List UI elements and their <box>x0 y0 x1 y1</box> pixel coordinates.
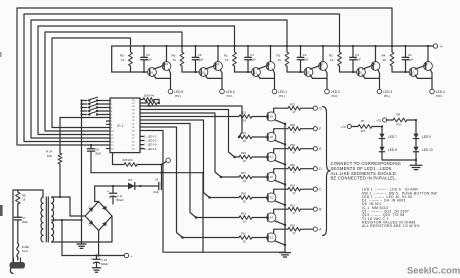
pin number left 8 of IC1 <box>111 124 113 126</box>
switch SW2 push-button <box>80 101 110 106</box>
wire Q7 collector to Q8 base <box>415 65 426 69</box>
transistor Q11 2N2907 <box>199 68 208 77</box>
svg-text:47: 47 <box>293 151 296 155</box>
svg-text:LED 9: LED 9 <box>422 135 431 139</box>
svg-text:470: 470 <box>361 129 366 133</box>
wire supply row <box>91 172 204 174</box>
pin number left 4 of IC1 <box>111 111 113 113</box>
wire R5 to Q9 base <box>112 66 148 72</box>
svg-text:LED 6: LED 6 <box>226 90 235 94</box>
svg-text:R25 10K: R25 10K <box>123 158 133 162</box>
resistor R7 470 <box>351 119 372 133</box>
switch SW1 push-button <box>80 97 110 102</box>
wire Q2 emitter to V+ bus <box>269 45 271 62</box>
wire Q 13 collector <box>274 229 288 233</box>
svg-text:R 24: R 24 <box>46 150 52 154</box>
svg-text:Q7: Q7 <box>411 71 415 75</box>
resistor R21 1K (base) <box>239 131 252 143</box>
note text connect segments <box>331 161 402 181</box>
capacitor C9 .01uF <box>153 178 162 194</box>
svg-text:R20: R20 <box>290 123 295 127</box>
svg-text:47: 47 <box>293 131 296 135</box>
diode D1 <box>89 205 94 212</box>
svg-text:PIN 1: PIN 1 <box>332 95 339 98</box>
svg-text:C7: C7 <box>22 216 26 220</box>
ground LED section <box>410 165 422 169</box>
ground driver rail <box>280 253 291 257</box>
wire Q 17 collector <box>274 149 288 153</box>
svg-text:R19: R19 <box>241 151 246 155</box>
node LED 4 anode terminal <box>430 89 435 94</box>
wire IC1 pin to Q17 base (stair) <box>140 110 239 159</box>
svg-text:R6: R6 <box>172 54 176 58</box>
wire R27 junction <box>157 102 159 104</box>
resistor R3 1K (digit 5 input, in bus drop) <box>329 45 341 66</box>
transistor Q2 2N2907 <box>266 62 275 71</box>
svg-text:Q3: Q3 <box>306 71 310 75</box>
svg-text:R5: R5 <box>120 54 124 58</box>
svg-text:1K: 1K <box>243 139 246 143</box>
transistor Q6 2N2907 <box>371 62 380 71</box>
wire line lead left <box>12 190 14 262</box>
pin stub left IC1 unconnected <box>107 121 111 149</box>
svg-text:R11: R11 <box>241 232 246 236</box>
wire negative rail <box>62 255 124 257</box>
capacitor C6 .01uF <box>192 45 203 73</box>
wire secondary top to bridge <box>52 197 86 216</box>
svg-text:E: E <box>319 147 321 151</box>
svg-text:D5: D5 <box>128 178 132 182</box>
wire Q5/Q6 to LED terminal <box>363 70 380 90</box>
transformer T1 primary winding <box>41 197 43 242</box>
svg-text:01µF: 01µF <box>197 57 203 61</box>
capacitor C8 .05uF <box>87 144 101 173</box>
svg-text:C9: C9 <box>155 178 159 182</box>
wire Q3 collector to Q4 base <box>310 65 321 69</box>
transistor Q3 2N2907 <box>304 68 313 77</box>
pin number left 3 of IC1 <box>111 108 113 110</box>
svg-text:47: 47 <box>293 191 296 195</box>
svg-text:1K: 1K <box>243 179 246 183</box>
pin number right 21 of IC1 <box>132 124 135 126</box>
svg-text:Q5: Q5 <box>358 71 362 75</box>
resistor R22 47 (collector) <box>288 102 301 114</box>
pin number left 14 of IC1 <box>111 145 114 147</box>
svg-text:+TO: +TO <box>341 125 346 129</box>
svg-text:Q11: Q11 <box>201 71 206 75</box>
transistor Q 17 TIS98 <box>267 152 276 161</box>
wire Q 18 collector <box>274 129 288 133</box>
wire R17 to Q 16 base <box>252 176 268 178</box>
pin number right 17 of IC1 <box>132 138 135 140</box>
LED 7 <box>379 127 397 139</box>
node segment A output terminal <box>313 227 322 231</box>
wire Q9 collector to Q10 base <box>154 65 165 69</box>
svg-text:1K: 1K <box>243 240 246 244</box>
node segment B output terminal <box>313 207 321 211</box>
node segment D output terminal <box>313 167 322 171</box>
wire R15 to Q 15 base <box>252 197 268 199</box>
wire Q 16 emitter to rail <box>275 180 286 185</box>
svg-text:LED 10: LED 10 <box>422 148 433 152</box>
label LED 3 <box>383 90 392 98</box>
wire Q 19 collector <box>274 108 288 112</box>
resistor R14 47 (collector) <box>288 183 301 195</box>
svg-text:5→LED 1-2: 5→LED 1-2 <box>144 136 157 139</box>
wire Q12 emitter to V+ bus <box>217 45 219 62</box>
wire LED7 to LED8 <box>381 139 383 147</box>
svg-text:R2: R2 <box>277 54 281 58</box>
pin number left 6 of IC1 <box>111 118 113 120</box>
wire rectifier output row <box>95 185 128 187</box>
pin number right 14 of IC1 <box>132 149 135 151</box>
wire R11 to Q 13 base <box>252 237 268 239</box>
resistor R8 470 <box>387 113 407 127</box>
transformer T1 core <box>46 197 48 242</box>
svg-text:1K: 1K <box>243 220 246 224</box>
resistor R19 1K (base) <box>239 151 252 163</box>
LED 10 <box>413 147 432 152</box>
switch SW3 push-button <box>80 104 110 109</box>
wire Q7/Q8 to LED terminal <box>415 70 432 90</box>
label SeekIC.com watermark <box>407 264 460 275</box>
wire R4 to Q7 base <box>392 66 409 72</box>
wire R2 to Q3 base <box>287 66 304 72</box>
svg-text:01µF: 01µF <box>250 57 256 61</box>
svg-text:D2: D2 <box>89 223 93 227</box>
node LED 2 anode terminal <box>325 89 330 94</box>
pin number right 22 of IC1 <box>132 120 135 122</box>
svg-text:LED 4: LED 4 <box>436 90 445 94</box>
node LED 5 anode terminal <box>168 89 173 94</box>
svg-text:1K: 1K <box>278 58 282 62</box>
svg-text:PIN 1: PIN 1 <box>227 95 234 98</box>
svg-text:Q9: Q9 <box>149 71 153 75</box>
switch SW5 push-button <box>80 111 110 116</box>
svg-text:LED 8: LED 8 <box>388 148 397 152</box>
wire R10 to terminal <box>301 228 314 230</box>
pin stub right IC1 unconnected <box>140 148 144 150</box>
svg-text:R21: R21 <box>241 131 246 135</box>
transistor Q 18 TIS98 <box>267 132 276 141</box>
svg-text:1K: 1K <box>173 58 177 62</box>
svg-text:01µF: 01µF <box>302 57 308 61</box>
svg-text:47: 47 <box>293 171 296 175</box>
svg-text:D1: D1 <box>89 205 93 209</box>
pin number left 5 of IC1 <box>111 115 113 117</box>
resistor R10 47 (collector) <box>288 223 301 235</box>
wire secondary center tap <box>52 219 83 221</box>
wire bus left drop to Q9 base wire <box>111 46 113 72</box>
wire IC1 to Q19 base (segment g) <box>140 116 239 118</box>
svg-text:R7: R7 <box>361 119 365 123</box>
transistor Q 14 TIS98 <box>267 213 276 222</box>
svg-text:C2: C2 <box>303 53 307 57</box>
node segment E output terminal <box>313 147 321 151</box>
wire R22 to terminal <box>301 107 314 109</box>
wire driver emitter rail <box>284 124 286 252</box>
pin number right 16 of IC1 <box>132 142 135 144</box>
wire R19 to Q 17 base <box>252 156 268 158</box>
svg-text:1K: 1K <box>330 58 334 62</box>
label LED 4 <box>436 90 445 98</box>
wire Q 13 emitter to rail <box>275 241 286 246</box>
wire digit-enable bus 6 (IC1 pin to display driver stage) <box>52 38 131 128</box>
pin number right 20 of IC1 <box>132 127 135 129</box>
wire Q11 collector to Q12 base <box>205 65 216 69</box>
svg-text:PIN 1: PIN 1 <box>175 95 182 98</box>
pin number left 1 of IC1 <box>111 101 113 103</box>
wire digit-enable bus 5 (IC1 pin to display driver stage) <box>45 32 182 131</box>
resistor R11 1K (base) <box>239 232 252 244</box>
wire Q5 collector to Q6 base <box>363 65 374 69</box>
transistor Q9 2N2907 <box>148 68 157 77</box>
svg-text:LED 5: LED 5 <box>174 90 183 94</box>
wire R6 to Q11 base <box>182 66 199 72</box>
pin number right 19 of IC1 <box>132 131 135 133</box>
wire IC1 pin to Q18 base (stair) <box>140 106 242 138</box>
wire digit-enable bus 4 (IC1 pin to display driver stage) <box>38 26 235 135</box>
op-amp IC U1 MM5313 clock chip body <box>110 98 140 153</box>
svg-text:C1: C1 <box>250 53 254 57</box>
pin number right 23 of IC1 <box>132 117 135 119</box>
node LED 3 anode terminal <box>377 89 382 94</box>
capacitor C5 .01uF <box>141 45 152 73</box>
svg-text:15: 15 <box>22 198 25 202</box>
scan artifact left edge <box>0 52 3 216</box>
wire switch common rail <box>81 101 83 221</box>
svg-text:47: 47 <box>293 231 296 235</box>
svg-text:R16: R16 <box>290 163 295 167</box>
svg-text:R3: R3 <box>329 54 333 58</box>
svg-text:Q 16: Q 16 <box>267 176 273 179</box>
svg-text:01µF: 01µF <box>355 57 361 61</box>
svg-text:C3: C3 <box>355 53 359 57</box>
svg-text:10K: 10K <box>47 154 52 158</box>
wire Q 18 emitter to rail <box>275 140 286 145</box>
svg-text:Q 14: Q 14 <box>267 217 273 220</box>
wire rectifier row to bridge <box>95 186 99 202</box>
transistor Q 19 TIS98 <box>267 112 276 121</box>
svg-text:1K: 1K <box>243 159 246 163</box>
wire IC1 pin 28 to R26 <box>140 99 143 101</box>
wire Q11/Q12 to LED terminal <box>205 70 222 90</box>
svg-text:.01µF: .01µF <box>153 191 160 194</box>
wire C9 to supply row <box>160 173 162 186</box>
svg-text:PIN 1: PIN 1 <box>384 95 391 98</box>
svg-text:R14: R14 <box>290 183 295 187</box>
wire IC1 pin to Q16 base (stair) <box>140 113 239 178</box>
wire IC1 pin 6 to R24 <box>60 118 110 154</box>
pin number right 28 of IC1 <box>132 100 135 102</box>
wire bridge minus to rail <box>98 231 100 257</box>
resistor R2 1K (digit 4 input, in bus drop) <box>277 45 289 66</box>
svg-text:R4: R4 <box>382 54 386 58</box>
node V+ terminal <box>431 44 444 49</box>
resistor R25 10K <box>123 158 138 166</box>
svg-text:D4: D4 <box>104 205 108 209</box>
wire R18 to terminal <box>301 148 314 150</box>
svg-text:1K: 1K <box>243 119 246 123</box>
svg-text:1K: 1K <box>121 58 125 62</box>
label LED 5 <box>174 90 183 98</box>
resistor R6 1K (digit 2 input, in bus drop) <box>172 45 184 66</box>
svg-text:Q 18: Q 18 <box>267 136 273 139</box>
diode D3 <box>102 222 108 227</box>
wire R23 to Q 19 base <box>252 116 268 118</box>
transformer T1 secondary winding <box>52 197 54 242</box>
pin number right 24 of IC1 <box>132 113 135 115</box>
svg-text:1K: 1K <box>383 58 387 62</box>
bridge rectifier D1-D4 diamond <box>85 202 112 231</box>
resistor R13 1K (base) <box>239 212 252 224</box>
wire LED9 to LED10 <box>415 139 417 147</box>
svg-text:C6: C6 <box>198 53 202 57</box>
wire Q1 collector to Q2 base <box>258 65 269 69</box>
svg-text:LED 2: LED 2 <box>331 90 340 94</box>
node segment G output terminal <box>313 106 322 110</box>
label LED 1 <box>278 90 287 98</box>
node negative output terminal <box>124 253 132 258</box>
svg-text:+: + <box>107 189 109 193</box>
svg-text:R8: R8 <box>397 113 401 117</box>
svg-text:6→LED 2-3: 6→LED 2-3 <box>144 140 157 143</box>
transistor Q1 2N2907 <box>252 68 261 77</box>
wire R16 to terminal <box>301 168 314 170</box>
svg-text:ALL RESISTORS ARE 1/2 W 5%: ALL RESISTORS ARE 1/2 W 5% <box>362 224 420 228</box>
svg-text:Q 19: Q 19 <box>267 116 273 119</box>
capacitor C4 .01uF <box>402 45 413 73</box>
svg-text:R18: R18 <box>290 143 295 147</box>
svg-text:R17: R17 <box>241 171 246 175</box>
svg-text:1K: 1K <box>225 58 229 62</box>
wire Q6 emitter to V+ bus <box>374 45 376 62</box>
wire digit-enable bus 1 (IC1 pin to display driver stage) <box>17 8 392 145</box>
node supply terminal <box>162 158 171 165</box>
svg-text:50/60 Hz: 50/60 Hz <box>144 94 155 97</box>
LED 9 <box>413 120 431 139</box>
wire IC1 pin to Q15 base (stair) <box>140 120 239 199</box>
svg-text:F: F <box>319 127 321 131</box>
resistor R16 47 (collector) <box>288 163 301 175</box>
transistor Q12 2N2907 <box>214 62 223 71</box>
pin number left 2 of IC1 <box>111 104 113 106</box>
bracket segment outputs group <box>323 107 331 236</box>
pin number right 18 of IC1 <box>132 135 135 137</box>
transistor Q7 2N2907 <box>409 68 418 77</box>
node LED 6 anode terminal <box>220 89 225 94</box>
switch SW4 push-button <box>80 108 110 113</box>
wire Q9/Q10 to LED terminal <box>154 70 171 90</box>
svg-text:500µF: 500µF <box>116 199 124 202</box>
wire supply node down <box>160 165 162 174</box>
pin number left 15 of IC1 <box>111 149 114 151</box>
capacitor C2 .01uF <box>297 45 308 73</box>
ground C10 <box>93 268 101 272</box>
wire D5 to C9 <box>141 185 159 187</box>
svg-text:500µF: 500µF <box>101 263 109 266</box>
wire Q 14 emitter to rail <box>275 221 286 226</box>
svg-text:LED 3: LED 3 <box>383 90 392 94</box>
svg-text:FUSE: FUSE <box>22 245 29 249</box>
svg-text:R12: R12 <box>290 203 295 207</box>
capacitor C3 .01uF <box>350 45 361 73</box>
pin number right 26 of IC1 <box>132 106 135 108</box>
svg-text:LED 1: LED 1 <box>278 90 287 94</box>
wire secondary bottom to bridge <box>52 216 112 242</box>
svg-text:C5: C5 <box>146 53 150 57</box>
svg-text:R10: R10 <box>290 223 295 227</box>
wire digit-enable bus 3 (IC1 pin to display driver stage) <box>31 20 287 138</box>
wire Q 17 emitter to rail <box>275 160 286 165</box>
svg-text:R9: R9 <box>22 194 26 198</box>
resistor R18 47 (collector) <box>288 143 301 155</box>
wire Q 14 collector <box>274 209 288 213</box>
pin number left 12 of IC1 <box>111 138 114 140</box>
wire supply row to rail <box>202 173 204 253</box>
wire Q 15 emitter to rail <box>275 201 286 206</box>
node segment F output terminal <box>313 127 321 131</box>
capacitor C7 .05uF <box>14 216 28 243</box>
label LED 2 <box>331 90 340 98</box>
svg-text:SeekIC.com: SeekIC.com <box>407 264 460 275</box>
wire R25 to supply node <box>137 163 163 165</box>
label LED 6 <box>226 90 235 98</box>
resistor R4 1K (digit 6 input, in bus drop) <box>382 45 394 66</box>
svg-text:+TO: +TO <box>376 119 381 123</box>
wire IC1 pin to Q13 base (stair) <box>140 127 239 239</box>
resistor R9 15 <box>16 190 26 217</box>
wire V+ supply bus <box>112 45 431 47</box>
wire LED10 to ground <box>415 152 417 165</box>
svg-text:C4: C4 <box>408 53 412 57</box>
wire Q 19 emitter to rail <box>275 120 286 125</box>
pin number left 11 of IC1 <box>111 135 114 137</box>
svg-text:470: 470 <box>396 122 401 126</box>
svg-text:+: + <box>131 254 133 258</box>
svg-text:LED 7: LED 7 <box>388 135 397 139</box>
pin number right 15 of IC1 <box>132 145 135 147</box>
ground center tap <box>77 220 86 248</box>
svg-text:PIN 1: PIN 1 <box>437 95 444 98</box>
pin number left 7 of IC1 <box>111 121 113 123</box>
capacitor C10 500uF electrolytic <box>90 254 108 267</box>
AC plug <box>10 258 26 274</box>
wire primary top rail <box>13 190 43 197</box>
svg-text:Q 17: Q 17 <box>267 156 273 159</box>
node +V terminal to R8 <box>376 118 387 123</box>
LED 8 <box>379 147 397 152</box>
wire R8 to LED9 <box>407 119 417 121</box>
transistor Q 15 TIS98 <box>267 193 276 202</box>
fuse FUSE 1/2A <box>17 244 29 261</box>
resistor R1 1K (digit 3 input, in bus drop) <box>224 45 236 66</box>
svg-text:R15: R15 <box>241 192 246 196</box>
transistor Q10 2N2907 <box>162 62 171 71</box>
transistor Q4 2N2907 <box>319 62 328 71</box>
wire R12 to terminal <box>301 208 314 210</box>
resistor R17 1K (base) <box>239 171 252 183</box>
svg-text:.05µF: .05µF <box>95 152 102 155</box>
wire IC1 pin 27 to R27 <box>140 102 146 104</box>
svg-text:IC 1: IC 1 <box>118 124 124 128</box>
wire R21 to Q 18 base <box>252 136 268 138</box>
svg-text:Q1: Q1 <box>253 71 257 75</box>
wire IC1 pin 15 to R25 <box>113 153 125 165</box>
wire R7 to LED7 <box>372 125 383 127</box>
pin number right 25 of IC1 <box>132 110 135 112</box>
wire R14 to terminal <box>301 188 314 190</box>
